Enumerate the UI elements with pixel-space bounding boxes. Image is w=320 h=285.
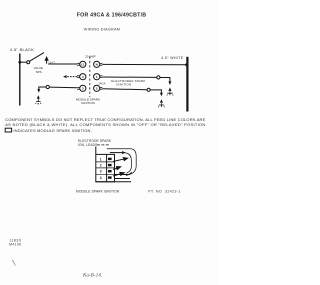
svg-text:WIRING DIAGRAM: WIRING DIAGRAM [84,28,120,32]
connector 1 [94,74,100,80]
wire row3 left [49,86,77,89]
svg-text:IGN. LEADS: IGN. LEADS [78,143,97,147]
wire row2 to electrode [160,78,170,82]
node junction on white line [185,63,188,66]
lead loop inner top [110,152,123,154]
svg-text:1: 1 [96,75,98,79]
svg-text:IGNITION: IGNITION [81,101,95,105]
node junction on black line [18,61,21,64]
switch S1 fixed contact arrow [45,57,48,63]
svg-text:4: 4 [100,176,102,180]
svg-text:20 AMP: 20 AMP [85,54,96,58]
wire row1 left [48,63,77,65]
module terminal strip box [96,154,115,181]
svg-text:2: 2 [100,164,102,168]
burner ground row3 [158,103,164,107]
svg-text:PT. NO. 32423-1: PT. NO. 32423-1 [148,189,181,193]
terminal strip divider [106,154,108,181]
switch S1 blade [30,53,44,62]
svg-text:4.5" WHITE: 4.5" WHITE [161,56,184,60]
chassis ground left [37,95,40,99]
svg-text:MODULE SPARK IGNITION: MODULE SPARK IGNITION [76,189,120,193]
white feed line [186,57,188,112]
svg-text:L1: L1 [81,63,85,67]
module dashed boundary [89,57,91,98]
terminal row separators [96,161,115,163]
svg-text:INDICATES MODULE SPARK IGNIT: INDICATES MODULE SPARK IGNITION. [13,128,91,133]
switch S1 pivot [27,61,30,64]
wire row1 right [102,63,186,65]
svg-text:3: 3 [82,87,84,91]
wire [20,61,27,63]
black feed line [19,54,21,106]
svg-text:3: 3 [100,170,102,174]
wire row3 left end [39,87,46,90]
wire row2 left with arrow [66,76,77,78]
lead bottom 2 [115,178,131,180]
lead loop outer [107,149,136,176]
svg-text:1: 1 [100,157,102,161]
svg-text:Ka-B-14.: Ka-B-14. [82,273,102,278]
electrode spark gap row3 [160,93,163,103]
connector splice row3 left [46,85,49,88]
svg-text:14GA: 14GA [98,81,105,85]
wire row3 right [102,88,147,91]
svg-text:IGNITION: IGNITION [116,82,131,86]
arrow down row3 left [37,89,40,93]
lead arrow row1 [113,158,128,162]
connector N [94,61,100,67]
wire row2 right [102,76,156,78]
svg-text:FOR 49CA & 196/49CBT/B: FOR 49CA & 196/49CBT/B [77,13,147,19]
svg-text:2: 2 [96,87,98,91]
connector 3 [77,87,80,89]
module top-view leader [95,147,97,155]
module bottom edge [96,181,131,183]
svg-text:AS NOTED (BLACK & WHITE). ALL: AS NOTED (BLACK & WHITE). ALL COMPONENTS… [5,122,207,127]
svg-text:4.5" BLACK: 4.5" BLACK [10,47,34,52]
lead arrow row2 [113,167,121,170]
leader dash [97,144,110,146]
lead loop inner [125,153,132,174]
connector 4 [77,76,80,78]
connector 2 [94,85,100,91]
connector L1 [77,63,80,65]
burner ground row2 [167,91,173,95]
pencil check mark [12,260,15,266]
lead bottom 1 [115,172,132,174]
electrode spark gap row2 [168,81,171,91]
svg-text:M4106: M4106 [9,243,21,247]
lead arrow row3 [113,172,124,176]
svg-text:4: 4 [82,75,84,79]
svg-text:SPS.: SPS. [36,70,43,74]
wire row3 to electrode [150,90,161,93]
connector splice row3 right [147,88,150,91]
connector splice row2 [157,76,160,79]
legend box [5,128,11,132]
